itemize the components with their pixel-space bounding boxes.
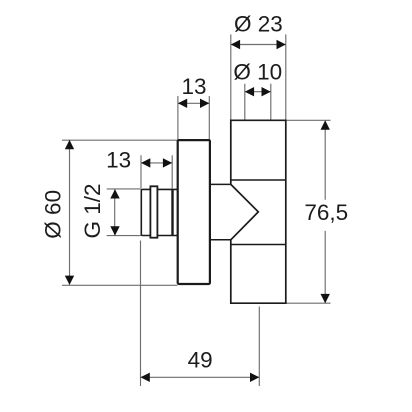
thread end face line — [171, 189, 173, 235]
label dia 23 — [234, 11, 283, 36]
svg-text:76,5: 76,5 — [304, 200, 348, 225]
wall rosette flange — [178, 140, 210, 284]
label 49 — [188, 348, 213, 373]
arrowhead G 1/2 up — [110, 189, 119, 198]
svg-text:Ø 60: Ø 60 — [41, 190, 66, 239]
arrowhead dia 23 right — [277, 40, 286, 49]
dimension line G 1/2 — [114, 189, 116, 236]
arrowhead 76,5 up — [321, 120, 330, 129]
body section line lower — [231, 244, 286, 246]
svg-text:G 1/2: G 1/2 — [80, 183, 105, 238]
arrowhead 13 top right — [200, 99, 209, 108]
arrowhead dia 10 left — [245, 87, 254, 96]
svg-text:Ø 23: Ø 23 — [234, 11, 283, 36]
neck upper edge — [209, 183, 231, 185]
extension lines G 1/2 — [107, 189, 141, 236]
extension lines 76,5 — [286, 120, 330, 303]
arrowhead dia 60 up — [65, 140, 74, 149]
dimension line dia 10 — [245, 91, 271, 93]
extension line 49 right — [258, 307, 260, 387]
arrowhead G 1/2 down — [110, 226, 119, 235]
body section line upper — [231, 179, 286, 181]
svg-text:49: 49 — [188, 348, 213, 373]
dimension line 49 — [141, 376, 260, 378]
extension lines dia 23 — [231, 34, 286, 119]
label G 1/2 (rotated) — [80, 183, 105, 238]
svg-text:Ø 10: Ø 10 — [233, 59, 282, 84]
arrowhead 13 left-dim left — [141, 158, 150, 167]
arrowhead 49 right — [250, 373, 259, 382]
neck lower edge — [209, 239, 231, 241]
arrowhead 13 top left — [178, 99, 187, 108]
extension lines dia 10 — [245, 84, 271, 120]
label dia 60 (rotated) — [41, 190, 66, 239]
label dia 10 — [233, 59, 282, 84]
arrowhead dia 10 right — [262, 87, 271, 96]
label 13 left — [106, 147, 131, 172]
threaded inlet pipe body — [141, 189, 178, 235]
extension lines 13 top — [178, 96, 209, 139]
dimension line 13 left — [141, 162, 172, 164]
label 76,5 — [304, 200, 348, 225]
arrowhead dia 23 left — [231, 40, 240, 49]
arrowhead 49 left — [141, 373, 150, 382]
valve body outline (top cylinder, right edge, bottom cylinder, chevron neck cut) — [231, 120, 286, 303]
arrowhead 13 left-dim right — [163, 158, 172, 167]
dimension line 76,5 (broken by text) — [324, 120, 326, 303]
arrowhead dia 60 down — [65, 276, 74, 285]
dimension line 13 top — [178, 102, 209, 104]
extension lines dia 60 — [62, 140, 177, 285]
thread collar ring — [150, 186, 157, 237]
extension lines 13 left — [141, 155, 172, 188]
dimension line dia 23 — [231, 44, 286, 46]
dimension line dia 60 — [69, 140, 71, 285]
svg-text:13: 13 — [106, 147, 131, 172]
arrowhead 76,5 down — [321, 294, 330, 303]
extension line 49 left — [140, 241, 142, 387]
svg-text:13: 13 — [181, 74, 206, 99]
label 13 top — [181, 74, 206, 99]
